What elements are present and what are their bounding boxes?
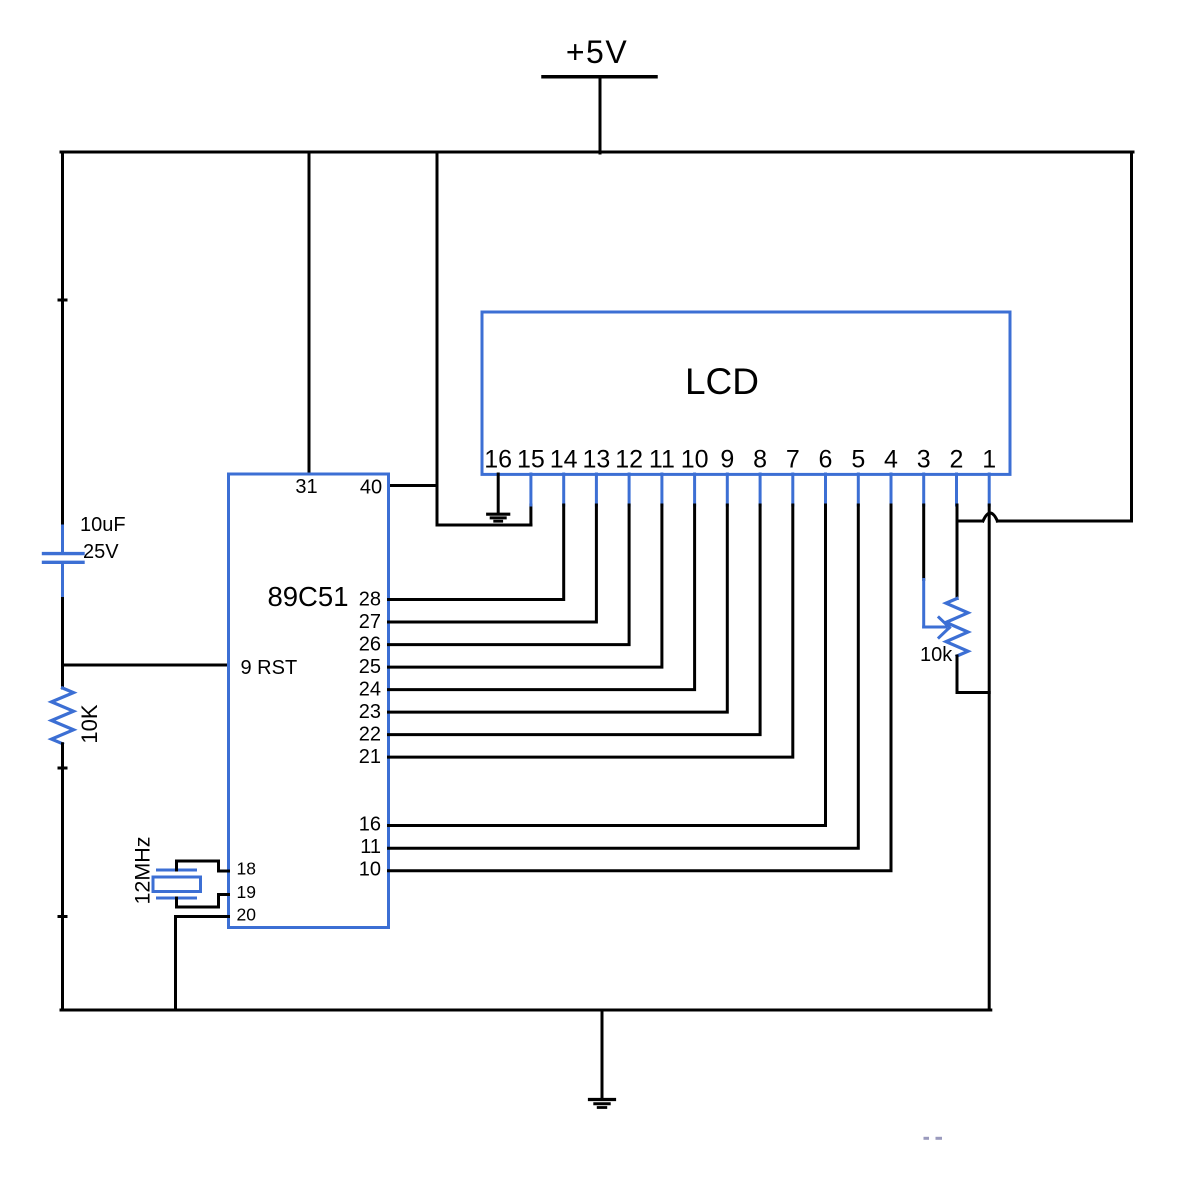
svg-text:18: 18 [237,859,256,879]
svg-text:27: 27 [359,611,381,633]
svg-text:20: 20 [237,905,257,925]
wire LCD pin 2 down to potentiometer [956,505,959,599]
ground at LCD pin 16 [488,474,509,521]
svg-text:6: 6 [819,446,833,474]
svg-text:1: 1 [982,446,996,474]
wire VCC branch to pin 40 and LCD pin 15 [437,152,531,525]
svg-text:16: 16 [484,446,512,474]
svg-text:25V: 25V [83,541,119,563]
svg-text:LCD: LCD [685,361,759,402]
wire pot bottom to LCD pin 1 net [957,656,989,693]
svg-text:10: 10 [359,859,381,881]
+5V power symbol [543,34,656,153]
svg-text:3: 3 [917,446,931,474]
svg-text:11: 11 [649,446,675,474]
wire right rail [1130,152,1133,521]
svg-text:40: 40 [360,477,382,499]
svg-text:16: 16 [359,814,381,836]
wire 89C51 pin 27 to LCD pin 13 [389,505,597,622]
wire 89C51 pin 22 to LCD pin 8 [389,505,761,735]
wire top rail [61,151,1133,154]
svg-text:24: 24 [359,679,381,701]
svg-text:4: 4 [884,446,898,474]
svg-text:8: 8 [753,446,767,474]
svg-text:2: 2 [950,446,964,474]
svg-text:11: 11 [360,836,381,858]
wire LCD pin 3 down [922,505,925,580]
svg-text:10: 10 [681,446,709,474]
svg-text:22: 22 [359,724,381,746]
svg-text:13: 13 [582,446,610,474]
svg-text:15: 15 [517,446,545,474]
wire 89C51 pin 28 to LCD pin 14 [389,505,564,600]
wire RST node: pin 9 to left rail [63,664,229,667]
wire 89C51 pin 26 to LCD pin 12 [389,505,630,645]
wire 89C51 pin 10 to LCD pin 4 [389,505,892,871]
IC LCD box [482,312,1010,474]
wire crystal bottom to pin 19 [177,895,229,908]
wire pin 40 stub [389,484,438,487]
wire top rail to 89C51 pin 31 [308,152,311,474]
wire 89C51 pin 16 to LCD pin 6 [389,505,826,826]
wire left rail lower segment [61,744,64,1010]
resistor R1 10K [52,688,74,744]
wire 89C51 pin 23 to LCD pin 9 [389,505,728,712]
op IC U1 89C51 box [229,474,389,928]
svg-text:7: 7 [786,446,800,474]
wire 89C51 pin 25 to LCD pin 11 [389,505,662,667]
wire end tick marks [59,300,66,917]
svg-text:89C51: 89C51 [267,581,348,612]
wire pin 20 to bottom rail [176,917,229,1011]
ground at bottom rail [590,1010,615,1108]
svg-text:14: 14 [550,446,578,474]
LCD pin ticks (blue) pins 15..1 [531,474,989,505]
wire 89C51 pin 11 to LCD pin 5 [389,505,859,848]
wiper wire (blue) from pin 3 to pot [924,580,950,638]
svg-text:5: 5 [851,446,865,474]
svg-text:21: 21 [359,746,381,768]
svg-text:10k: 10k [920,644,953,666]
wire LCD pin2 to right rail with hop over pin1 [957,513,1132,521]
wire left rail upper segment [61,152,64,525]
svg-text:+5V: +5V [566,34,628,70]
svg-text:9 RST: 9 RST [241,657,298,679]
wire left rail middle segment [61,599,64,689]
wire 89C51 pin 21 to LCD pin 7 [389,505,793,757]
watermark dashes [924,1137,943,1140]
svg-text:12MHz: 12MHz [131,836,155,904]
svg-text:9: 9 [720,446,734,474]
svg-text:31: 31 [295,476,317,498]
svg-text:28: 28 [359,589,381,611]
wire LCD pin 1 down to bottom rail [988,505,991,1010]
svg-text:12: 12 [615,446,643,474]
svg-text:19: 19 [237,882,256,902]
LCD pin number labels 16..1 [484,446,996,474]
svg-text:10K: 10K [77,704,102,743]
potentiometer RV1 10k [946,599,968,657]
svg-text:23: 23 [359,701,381,723]
capacitor C1 10uF 25V [44,526,84,599]
crystal X1 12MHz [153,870,201,898]
wire bottom rail [61,1009,991,1012]
svg-text:10uF: 10uF [80,514,126,536]
svg-text:25: 25 [359,656,381,678]
wire crystal top to pin 18 [177,861,229,871]
svg-text:26: 26 [359,634,381,656]
wire 89C51 pin 24 to LCD pin 10 [389,505,695,690]
